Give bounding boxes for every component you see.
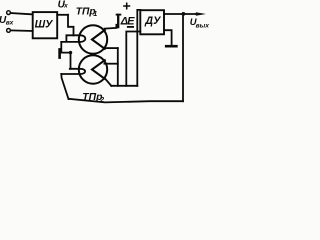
input terminal upper — [7, 11, 11, 15]
diff amplifier box DU — [140, 10, 164, 34]
vertical link wire — [117, 48, 119, 86]
heater of TPr1 — [61, 35, 85, 42]
wire heater1 to ground — [61, 42, 70, 53]
wire SHU output — [57, 14, 68, 16]
plus sign at DU input — [124, 3, 130, 9]
wire input upper to SHU — [11, 13, 33, 14]
svg-text:ΔE: ΔE — [120, 16, 135, 28]
amplifier box SHU — [33, 12, 58, 38]
wire TPr1 upper terminal — [105, 25, 117, 29]
output wire with junction — [164, 13, 197, 15]
svg-text:ДУ: ДУ — [144, 15, 161, 27]
hook foot — [116, 26, 118, 28]
thermal converter TPr1 circle — [79, 25, 107, 53]
svg-text:x: x — [63, 3, 68, 10]
wire TPr2 upper terminal — [104, 63, 117, 65]
wire input lower to SHU — [11, 29, 33, 32]
thermocouple wedge TPr2 — [92, 60, 105, 79]
feedback wire down-left diagonal — [61, 74, 68, 99]
ground plate (left, vertical bar) — [58, 49, 61, 57]
riser to DU minus input — [126, 32, 140, 86]
wire ground node to heater2 — [70, 53, 72, 69]
minus sign at DU input — [128, 26, 133, 28]
feedback bottom rail — [69, 99, 184, 103]
wire TPr2 lower diagonal — [106, 79, 112, 86]
svg-text:вых: вых — [196, 23, 210, 30]
ground plate 2 (horizontal bar) — [166, 45, 176, 48]
paper background — [0, 0, 210, 106]
svg-text:2: 2 — [99, 95, 105, 104]
svg-text:1: 1 — [93, 9, 97, 18]
junction dot ground node — [69, 51, 72, 54]
hook bar left of delta E — [117, 15, 119, 27]
heater of TPr2 — [61, 69, 85, 74]
wire DU to ground 2 — [164, 30, 172, 44]
output arrowhead — [196, 12, 206, 15]
wire bottom horizontal to riser — [111, 85, 137, 87]
thermal converter TPr2 circle — [79, 55, 107, 83]
wire TPr1 lower terminal — [105, 47, 118, 49]
feedback right riser — [182, 14, 184, 101]
riser to DU plus input — [137, 10, 140, 86]
hook cap — [117, 14, 121, 16]
input terminal lower — [7, 29, 11, 33]
svg-text:ШУ: ШУ — [35, 19, 54, 31]
junction dot output — [182, 12, 186, 16]
svg-text:вх: вх — [6, 20, 14, 27]
wire node Ux staircase down — [68, 15, 74, 36]
thermocouple wedge TPr1 — [92, 30, 105, 49]
